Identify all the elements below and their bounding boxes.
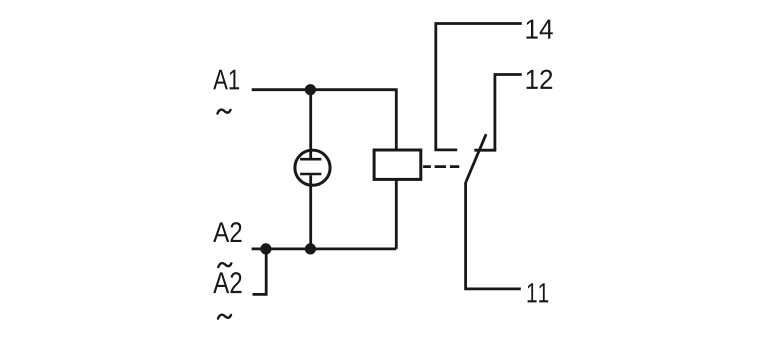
label 12 [527, 70, 553, 89]
relay coil [374, 150, 421, 179]
common branch 11 [466, 182, 521, 289]
capacitor top plate [300, 158, 321, 161]
label 11 [528, 283, 549, 302]
wire A1 horizontal to corner, down to coil [252, 90, 397, 150]
contact branch 12 (NC) [495, 75, 522, 151]
terminal label A2 [213, 222, 241, 242]
capacitor circle (suppressor module) [295, 150, 330, 185]
contact branch 14 (NO) [436, 24, 522, 150]
junction node A2 under capacitor [305, 243, 316, 254]
junction node A2 left [260, 243, 271, 254]
capacitor bottom plate [300, 173, 321, 176]
label 14 [526, 20, 552, 39]
wire A2 horizontal [252, 247, 397, 250]
contact 14 fixed foot [434, 148, 457, 151]
terminal label A2 (AC) [213, 272, 241, 293]
mechanical linkage (dashed) coil to contact [423, 165, 459, 168]
AC tilde under second A2 [218, 315, 231, 319]
wire node down to capacitor top plate [309, 90, 312, 159]
contact 12 fixed foot [474, 149, 496, 152]
terminal label A1 [213, 70, 239, 90]
wire capacitor bottom to A2 wire [309, 175, 312, 249]
wire coil bottom to A2 wire [395, 179, 398, 249]
AC tilde under A1 [218, 110, 231, 114]
tilde above second A2 [218, 263, 231, 267]
moving contact arm [466, 134, 486, 182]
junction node on A1 wire [305, 84, 316, 95]
stub wire to AC terminal A2~ [253, 249, 267, 295]
